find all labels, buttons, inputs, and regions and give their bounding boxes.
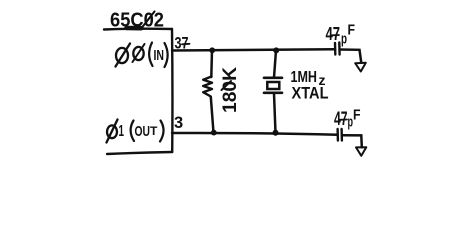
crystal Y1 top plate — [264, 77, 282, 80]
wire: resistor R1 vertical top leg — [210, 50, 213, 77]
phi1(OUT) label — [107, 120, 164, 143]
phi glyph of phi1 — [107, 125, 117, 138]
phi0(IN) label — [116, 43, 168, 68]
open paren of (OUT) — [131, 121, 134, 142]
svg-text:65C02: 65C02 — [110, 10, 164, 32]
svg-text:1: 1 — [119, 123, 125, 140]
svg-text:T: T — [150, 124, 158, 138]
crossbar of 7 in bottom 47pF — [340, 119, 348, 121]
wire: C2 to ground — [342, 135, 362, 147]
svg-text:1MH: 1MH — [291, 69, 318, 86]
crystal value label 1MHz — [291, 69, 326, 88]
crossbar of 7 in 37 — [182, 43, 190, 46]
wire: C1 to ground — [340, 50, 362, 63]
ground symbol arrow bottom — [356, 147, 366, 156]
svg-text:p: p — [341, 31, 347, 48]
resistor R1 zigzag body — [203, 77, 212, 97]
wire: resistor R1 vertical bottom leg — [211, 97, 214, 133]
crystal Y1 bottom plate — [264, 92, 282, 95]
IC U1 65C02 outline right edge — [171, 29, 174, 152]
junction node dot pin37/XTAL — [273, 47, 279, 53]
svg-text:F: F — [348, 22, 356, 39]
close paren of (IN) — [165, 43, 168, 67]
wire: pin 3 to capacitor C2 — [172, 133, 338, 135]
junction node dot pin3/R1 — [211, 130, 217, 136]
capacitor C1 value 47pF — [326, 22, 356, 48]
IC U1 65C02 partial outline top edge — [104, 27, 172, 30]
junction node dot pin3/XTAL — [273, 130, 279, 136]
IC U1 65C02 outline underline blob under C — [127, 26, 142, 31]
IC U1 65C02 outline bottom edge — [107, 152, 172, 154]
IC U1 label 65C02 — [110, 10, 164, 32]
slash through 0 of 65C02 — [142, 12, 155, 28]
ground symbol arrow top — [355, 63, 366, 72]
capacitor C1 right plate — [338, 43, 341, 55]
svg-text:XTAL: XTAL — [292, 85, 329, 103]
crossbar of 7 in top 47pF — [332, 34, 340, 36]
svg-text:IN: IN — [154, 48, 165, 64]
wire: crystal Y1 top leg — [274, 50, 276, 77]
wire: pin 37 to capacitor C1 — [172, 49, 335, 50]
slash of 0 in 180K — [222, 81, 232, 90]
capacitor C2 left plate — [336, 129, 339, 141]
phi glyph of phi0 — [116, 48, 128, 63]
slashed zero of phi0 — [133, 47, 143, 60]
junction node dot pin37/R1 — [209, 47, 215, 53]
svg-text:3: 3 — [174, 114, 183, 132]
resistor R1 value label 180K (rotated, reads upward) — [220, 67, 241, 113]
close paren of (OUT) — [160, 121, 164, 142]
open paren of (IN) — [149, 43, 152, 67]
svg-text:47: 47 — [326, 24, 341, 44]
svg-text:OU: OU — [135, 123, 151, 140]
capacitor C2 value 47pF — [334, 107, 361, 131]
crystal Y1 body rectangle — [267, 82, 279, 89]
svg-text:180K: 180K — [220, 67, 241, 113]
svg-text:F: F — [353, 107, 361, 124]
wire: crystal Y1 bottom leg — [274, 94, 276, 133]
capacitor C1 left plate — [334, 43, 337, 55]
capacitor C2 right plate — [340, 129, 343, 141]
